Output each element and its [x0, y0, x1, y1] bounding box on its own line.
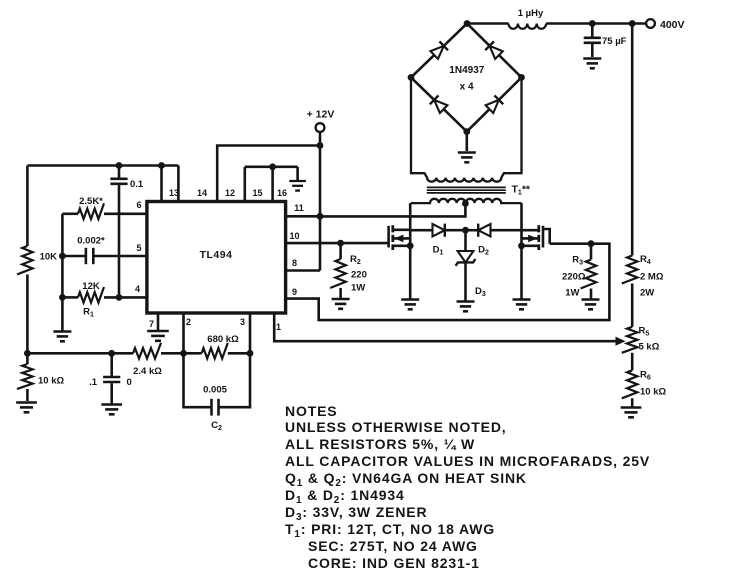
node R2 tap	[337, 240, 344, 247]
svg-text:0.002*: 0.002*	[77, 236, 105, 247]
wire pin 3 drop	[249, 313, 252, 353]
svg-text:5 kΩ: 5 kΩ	[639, 342, 660, 353]
node pin 3	[247, 350, 254, 357]
svg-text:R1: R1	[83, 307, 94, 319]
transformer T1 primary winding	[411, 199, 522, 203]
svg-text:220: 220	[351, 270, 367, 281]
svg-text:1W: 1W	[351, 283, 365, 294]
node filter cap junction	[589, 20, 596, 27]
svg-text:75 µF: 75 µF	[602, 36, 627, 47]
node bus 0.1 cap tap	[116, 162, 123, 169]
transistor Q1 gate bar	[387, 226, 390, 248]
svg-text:6: 6	[136, 200, 141, 210]
resistor 680 kOhm	[202, 343, 228, 359]
svg-text:R4: R4	[640, 254, 651, 266]
node clamp center	[462, 227, 469, 234]
wire +12V vertical	[319, 132, 322, 271]
wire left timing column	[61, 214, 64, 331]
svg-text:2.5K*: 2.5K*	[79, 196, 103, 207]
ground R6	[621, 406, 642, 409]
node bridge bottom	[463, 128, 470, 135]
wire Q2 gate lead	[543, 229, 550, 244]
wire pin 15 riser	[244, 167, 247, 202]
svg-text:16: 16	[277, 188, 287, 198]
resistor R3 220ohm 1W	[590, 244, 593, 260]
wire bridge diamond	[411, 24, 522, 132]
svg-text:2 MΩ: 2 MΩ	[640, 272, 664, 283]
svg-text:0: 0	[127, 377, 132, 388]
wire inductor to output	[546, 22, 646, 25]
node bridge right	[518, 74, 525, 81]
transistor Q2 source lead	[522, 245, 539, 248]
resistor 12K row pin 4	[62, 296, 78, 299]
wire far left vertical	[26, 166, 29, 247]
ground Q2	[513, 298, 531, 301]
transistor Q1 body arrow	[393, 237, 410, 240]
capacitor 0.002* row pin 5	[62, 255, 86, 258]
diode bridge CR-A (upper left)	[430, 41, 448, 59]
diode D2	[466, 229, 479, 232]
svg-text:.1: .1	[89, 377, 98, 388]
svg-text:220Ω: 220Ω	[562, 272, 586, 283]
wire pin 16 riser	[271, 167, 274, 202]
ground R3	[582, 298, 600, 301]
node primary center tap	[462, 200, 469, 207]
ground pin 7	[147, 330, 169, 333]
potentiometer R5 5k	[622, 327, 638, 353]
node Q1 source	[407, 242, 414, 249]
capacitor 75uF	[591, 24, 594, 38]
svg-text:3: 3	[240, 317, 245, 327]
svg-text:D1: D1	[433, 245, 444, 257]
svg-text:R3: R3	[572, 255, 583, 267]
transformer T1 core	[427, 186, 506, 188]
wire center tap to +12V rail	[320, 204, 465, 217]
wire pin 9 run	[286, 244, 610, 320]
svg-text:2: 2	[186, 317, 191, 327]
ground 75uF	[583, 57, 601, 60]
ground lower left	[16, 401, 37, 404]
transistor Q1 drain lead	[393, 229, 410, 232]
svg-text:7: 7	[149, 319, 154, 329]
svg-text:x 4: x 4	[460, 82, 474, 93]
wire Q2 drain to primary	[520, 203, 523, 246]
capacitor 0.1	[118, 166, 121, 179]
resistor 10K	[17, 246, 33, 275]
svg-text:8: 8	[292, 258, 297, 268]
resistor R2 220 1W	[339, 243, 342, 259]
svg-text:10 kΩ: 10 kΩ	[640, 387, 666, 398]
ground Q1	[401, 298, 419, 301]
wire pin 10 to Q1 gate	[286, 242, 389, 245]
node .1 cap tap	[108, 350, 115, 357]
resistor R6 10k	[622, 370, 638, 398]
svg-text:D2: D2	[478, 245, 489, 257]
wire top node to inductor	[467, 22, 509, 25]
transistor Q2 drain lead	[522, 229, 539, 232]
ground .1 cap	[101, 403, 122, 406]
transistor Q2 channel	[537, 225, 540, 232]
transistor Q2 body arrow	[522, 237, 539, 240]
svg-text:2.4 kΩ: 2.4 kΩ	[133, 366, 162, 377]
inductor L1 1uHy	[509, 24, 547, 29]
svg-text:13: 13	[169, 188, 179, 198]
resistor R4 2M 2W	[622, 256, 638, 284]
svg-text:C2: C2	[211, 420, 222, 432]
diode bridge CR-B (upper right)	[485, 41, 503, 59]
svg-text:1W: 1W	[565, 288, 579, 299]
svg-text:10: 10	[289, 231, 299, 241]
notes text block	[285, 404, 337, 419]
node divider junction	[629, 20, 636, 27]
op-amp U1 TL494 body	[147, 202, 286, 314]
wire divider vertical	[631, 24, 634, 256]
diode bridge CR-C (lower left)	[430, 95, 448, 113]
svg-text:14: 14	[197, 188, 207, 198]
node bridge left	[408, 74, 415, 81]
wire bottom feedback bus	[27, 352, 133, 355]
svg-text:5: 5	[136, 243, 141, 253]
wire pins 15-16 tie	[245, 166, 298, 169]
diode D1	[410, 229, 432, 232]
node Q2 source	[518, 242, 525, 249]
svg-text:+ 12V: + 12V	[307, 109, 335, 121]
transformer T1 secondary winding	[411, 77, 522, 181]
node R3 tap	[588, 240, 595, 247]
wire Q1 source to ground	[409, 246, 412, 299]
terminal +12V	[316, 123, 325, 132]
svg-text:12: 12	[225, 188, 235, 198]
svg-text:T1**: T1**	[512, 184, 531, 197]
svg-text:4: 4	[135, 284, 140, 294]
ground D3	[457, 300, 475, 303]
wire pin 2 drop	[182, 313, 185, 353]
resistor 2.5K* row pin 6	[62, 213, 78, 216]
wire to pin 12	[217, 146, 320, 202]
svg-text:680 kΩ: 680 kΩ	[207, 334, 239, 345]
svg-text:0.1: 0.1	[130, 179, 144, 190]
capacitor .1 / 0	[110, 353, 113, 376]
svg-text:10K: 10K	[40, 252, 58, 263]
svg-text:11: 11	[294, 203, 304, 213]
node bridge top	[464, 20, 471, 27]
svg-text:R5: R5	[639, 326, 650, 338]
wire pin 11 stub	[286, 215, 320, 218]
svg-text:10 kΩ: 10 kΩ	[38, 376, 64, 387]
zener D3	[464, 230, 467, 251]
wire pin 1 feedback run	[274, 313, 617, 341]
svg-text:1: 1	[276, 322, 281, 332]
transistor Q2 gate bar	[542, 226, 545, 248]
svg-text:2W: 2W	[640, 288, 654, 299]
transistor Q1 channel	[391, 225, 394, 232]
arrow R5 wiper	[616, 337, 626, 346]
transistor Q1 source lead	[393, 245, 410, 248]
node pin16 tie	[269, 163, 276, 170]
wire pin 7	[157, 313, 160, 330]
node 12K left	[59, 294, 66, 301]
ground R2	[332, 298, 350, 301]
svg-text:1 µHy: 1 µHy	[518, 8, 544, 19]
wire top reference bus	[27, 164, 178, 167]
wire Q2 source to ground	[520, 246, 523, 299]
node +12V pin12 tap	[317, 142, 324, 149]
ground bridge bottom	[465, 132, 468, 151]
diode bridge CR-D (lower right)	[485, 95, 503, 113]
svg-text:15: 15	[252, 188, 262, 198]
capacitor C2 0.005 loop	[184, 353, 212, 407]
terminal 400V	[646, 19, 655, 28]
svg-text:1N4937: 1N4937	[449, 65, 484, 76]
resistor 10 kOhm lower left	[26, 353, 29, 364]
node bus pin13	[158, 162, 165, 169]
svg-text:12K: 12K	[82, 281, 100, 292]
wire Q1 drain to primary	[409, 203, 412, 246]
wire pin 13 riser	[160, 166, 163, 202]
node cap left	[59, 253, 66, 260]
node bus left	[24, 350, 31, 357]
node 0.1 column bottom	[116, 294, 123, 301]
node pin 2	[180, 350, 187, 357]
svg-text:9: 9	[292, 287, 297, 297]
svg-text:R2: R2	[350, 254, 361, 266]
node pin 11 junction	[317, 213, 324, 220]
resistor 2.4 kOhm	[133, 343, 161, 359]
wire pin 14 riser	[177, 166, 180, 202]
svg-text:R6: R6	[640, 370, 651, 382]
svg-text:0.005: 0.005	[203, 385, 227, 396]
svg-text:400V: 400V	[660, 19, 685, 31]
ground timing column	[53, 330, 71, 333]
svg-text:TL494: TL494	[200, 249, 233, 261]
wire pin 8 stub	[286, 269, 320, 272]
ground pins 15-16	[296, 167, 299, 180]
svg-text:D3: D3	[475, 286, 486, 298]
